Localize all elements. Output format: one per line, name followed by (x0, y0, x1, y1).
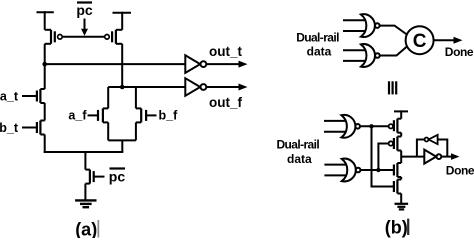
gate NOR G1 (361, 14, 380, 37)
wire inputs NOR G2 (343, 50, 366, 61)
svg-text:C: C (413, 31, 427, 52)
VDD symbol (circuit b) (394, 110, 408, 118)
VDD symbol right (circuit a) (113, 12, 132, 30)
wire between MN1 and MN2 (44, 103, 46, 121)
op-amp INV4 (feedback inverter, points left) (425, 135, 438, 144)
op-amp U1 (C-element) (406, 26, 434, 54)
svg-text:(b): (b) (385, 218, 408, 238)
svg-text:Done: Done (445, 45, 474, 59)
wire Done arrow (top b) (434, 37, 463, 44)
node equivalence symbol (388, 81, 397, 94)
wire to ground (84, 184, 86, 200)
wire out_t arrow (206, 61, 247, 68)
wire inputs NOR G3 (324, 121, 347, 132)
wire parallel-pair left branch (107, 87, 109, 140)
transistor NMOS MN6 (394, 163, 401, 177)
wire pc gate net (62, 36, 104, 38)
wire bottom rail (44, 151, 124, 153)
label b_t (0, 121, 19, 135)
svg-text:Dual-rail: Dual-rail (296, 31, 339, 45)
transistor PMOS MP2 (right precharge) (105, 30, 123, 44)
transistor NMOS MN1 (a_t) (22, 89, 45, 103)
transistor NMOS MN4 (b_f) (136, 108, 157, 122)
svg-text:data: data (307, 45, 332, 59)
op-amp INV3 (forward inverter) (424, 150, 441, 164)
wire G3 output to MP3 gate (360, 125, 389, 127)
node out_t junction (42, 62, 47, 67)
wire out_f net (108, 86, 185, 88)
wire to ground (b) (400, 194, 402, 204)
wire drain MP2 to out_f node (121, 44, 123, 87)
wire out_t net (45, 44, 186, 89)
wire MP3-MP4 (400, 133, 402, 137)
wire G2 output to C (380, 46, 408, 56)
node junction A (369, 124, 373, 128)
wire G1 output to C (380, 26, 408, 35)
node out_f junction (120, 85, 125, 90)
transistor NMOS MN7 (394, 180, 401, 194)
wire output node rail (400, 151, 402, 164)
op-amp INV1 (out_t inverter) (185, 55, 206, 73)
label out_t (209, 44, 242, 59)
node junction B (376, 168, 380, 172)
label (a) caption (75, 219, 99, 239)
wire G4 output to MN6 gate (360, 169, 394, 171)
VDD symbol left (circuit a) (37, 11, 54, 30)
svg-text:a_t: a_t (0, 89, 19, 103)
transistor NMOS MN2 (b_t) (22, 121, 45, 135)
svg-text:a_f: a_f (68, 109, 87, 123)
svg-text:pc: pc (76, 2, 93, 18)
svg-text:out_f: out_f (209, 95, 242, 110)
label Dual-rail data (top b) (296, 31, 339, 59)
wire MN2 drain to bottom rail (44, 135, 46, 154)
label pc (precharge, overline) with arrow (76, 2, 93, 36)
wire parallel-pair bottom and stem (108, 140, 136, 152)
label b_f (159, 109, 179, 123)
gate NOR G3 (341, 115, 360, 138)
label Done (bottom b) (446, 164, 474, 178)
label out_f (209, 95, 242, 110)
gate NOR G4 (342, 159, 361, 182)
svg-text:Done: Done (446, 164, 474, 178)
svg-text:b_t: b_t (0, 121, 19, 135)
wire inputs NOR G4 (324, 165, 347, 176)
transistor PMOS MP4 (389, 137, 402, 151)
wire net B vertical to MP4 gate (378, 144, 388, 171)
label a_f (68, 109, 87, 123)
svg-text:data: data (287, 152, 312, 166)
wire net A vertical to MN7 gate (372, 126, 394, 186)
wire out_f arrow (206, 84, 247, 91)
label Done (top b) (445, 45, 474, 59)
wire foot stem (84, 152, 86, 170)
svg-text:out_t: out_t (209, 44, 242, 59)
svg-text:Dual-rail: Dual-rail (276, 138, 319, 152)
wire MN6-MN7 (400, 177, 402, 180)
ground (circuit b) (395, 204, 409, 210)
op-amp INV2 (out_f inverter) (185, 78, 206, 96)
wire output node to keeper (401, 139, 425, 157)
wire parallel-pair right branch (135, 87, 137, 140)
label a_t (0, 89, 19, 103)
svg-text:b_f: b_f (159, 109, 179, 123)
transistor PMOS MP1 (left precharge) (45, 30, 63, 44)
svg-text:pc: pc (109, 168, 126, 184)
label pc (foot, overline) (109, 168, 126, 184)
wire inputs NOR G1 (343, 20, 366, 31)
label Dual-rail data (bottom b) (276, 138, 319, 166)
ground (circuit a) (75, 200, 96, 207)
wire Done arrow (bottom b) (441, 153, 459, 160)
transistor NMOS MN3 (a_f) (88, 108, 109, 122)
transistor PMOS MP3 (389, 119, 402, 133)
gate NOR G2 (361, 44, 380, 67)
label (b) caption (385, 218, 410, 238)
svg-text:(a): (a) (75, 219, 97, 238)
transistor NMOS MN5 (foot, pc gate) (85, 170, 104, 184)
wire feedback return (438, 139, 448, 157)
